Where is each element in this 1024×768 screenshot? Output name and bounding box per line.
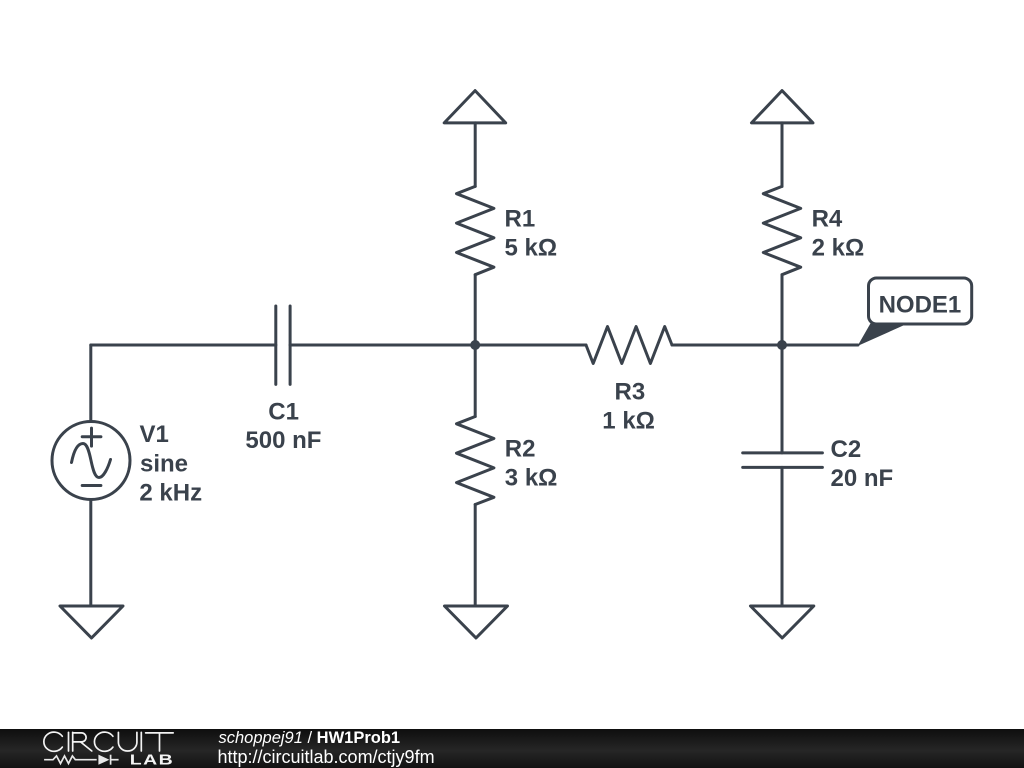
svg-text:R4: R4 [812,205,843,232]
svg-text:V1: V1 [140,421,169,448]
svg-text:R3: R3 [615,378,646,405]
svg-text:LAB: LAB [130,751,174,768]
svg-text:2 kHz: 2 kHz [139,480,202,507]
svg-text:20 nF: 20 nF [831,465,894,492]
svg-text:NODE1: NODE1 [879,292,962,319]
svg-text:3 kΩ: 3 kΩ [505,464,558,491]
svg-text:2 kΩ: 2 kΩ [812,234,865,261]
svg-text:1 kΩ: 1 kΩ [602,408,655,435]
svg-text:C2: C2 [831,436,862,463]
svg-text:5 kΩ: 5 kΩ [505,234,558,261]
svg-text:C1: C1 [268,398,299,425]
svg-text:R2: R2 [505,435,536,462]
svg-text:500 nF: 500 nF [245,427,321,454]
svg-text:sine: sine [140,450,188,477]
svg-text:R1: R1 [505,205,536,232]
